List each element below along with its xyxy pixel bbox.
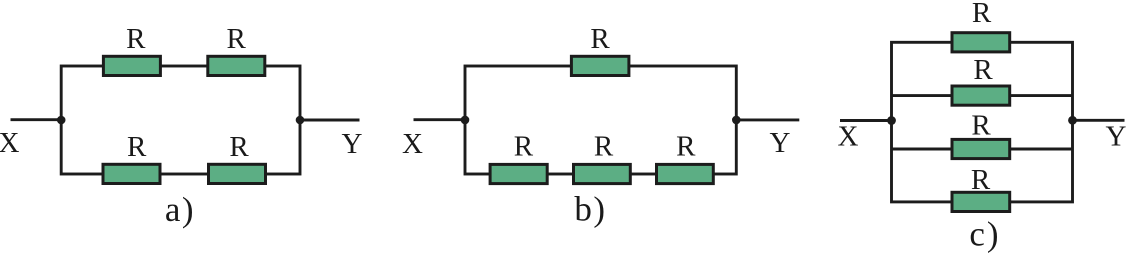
svg-text:Y: Y (1106, 120, 1127, 152)
svg-text:R: R (229, 131, 249, 163)
svg-text:R: R (676, 130, 696, 162)
svg-text:R: R (972, 0, 992, 29)
svg-text:R: R (227, 23, 247, 55)
wire Y lead a (300, 119, 360, 122)
svg-text:X: X (0, 127, 20, 159)
resistor R c4 (952, 192, 1010, 211)
wire branch 2 c (892, 94, 1073, 97)
wire loop circuit c (892, 42, 1073, 202)
svg-text:R: R (590, 23, 610, 55)
resistor R b3 (574, 164, 631, 183)
svg-text:R: R (971, 164, 991, 196)
wire Y lead b (736, 118, 799, 121)
resistor R c3 (952, 139, 1010, 158)
svg-text:R: R (973, 54, 993, 86)
svg-text:R: R (126, 23, 146, 55)
wire X lead b (414, 118, 466, 121)
resistor R c2 (952, 86, 1010, 105)
svg-text:R: R (971, 109, 991, 141)
wire branch 3 c (892, 148, 1073, 151)
svg-text:b): b) (574, 190, 606, 229)
svg-text:R: R (514, 130, 534, 162)
resistor R b1 (571, 56, 629, 75)
resistor R b2 (490, 164, 547, 183)
resistor R c1 (952, 33, 1010, 52)
wire Y lead c (1073, 119, 1125, 122)
resistor R a1 (103, 56, 160, 75)
svg-text:X: X (838, 121, 859, 153)
svg-text:a): a) (165, 190, 195, 229)
node Y c (1068, 116, 1077, 125)
resistor R b4 (657, 164, 714, 183)
svg-text:R: R (594, 130, 614, 162)
resistor R a3 (103, 164, 160, 183)
svg-text:X: X (402, 128, 423, 160)
svg-text:R: R (127, 131, 147, 163)
node Y a (296, 116, 305, 125)
wire loop circuit b (465, 66, 736, 174)
resistor R a4 (209, 164, 266, 183)
svg-text:c): c) (969, 215, 1000, 254)
wire X lead a (11, 118, 62, 121)
wire loop circuit a (61, 66, 300, 174)
wire X lead c (840, 119, 892, 122)
resistor R a2 (208, 56, 265, 75)
node X c (887, 116, 896, 125)
svg-text:Y: Y (342, 128, 363, 160)
node X a (57, 116, 66, 125)
node Y b (732, 116, 741, 125)
svg-text:Y: Y (770, 127, 791, 159)
node X b (461, 116, 470, 125)
